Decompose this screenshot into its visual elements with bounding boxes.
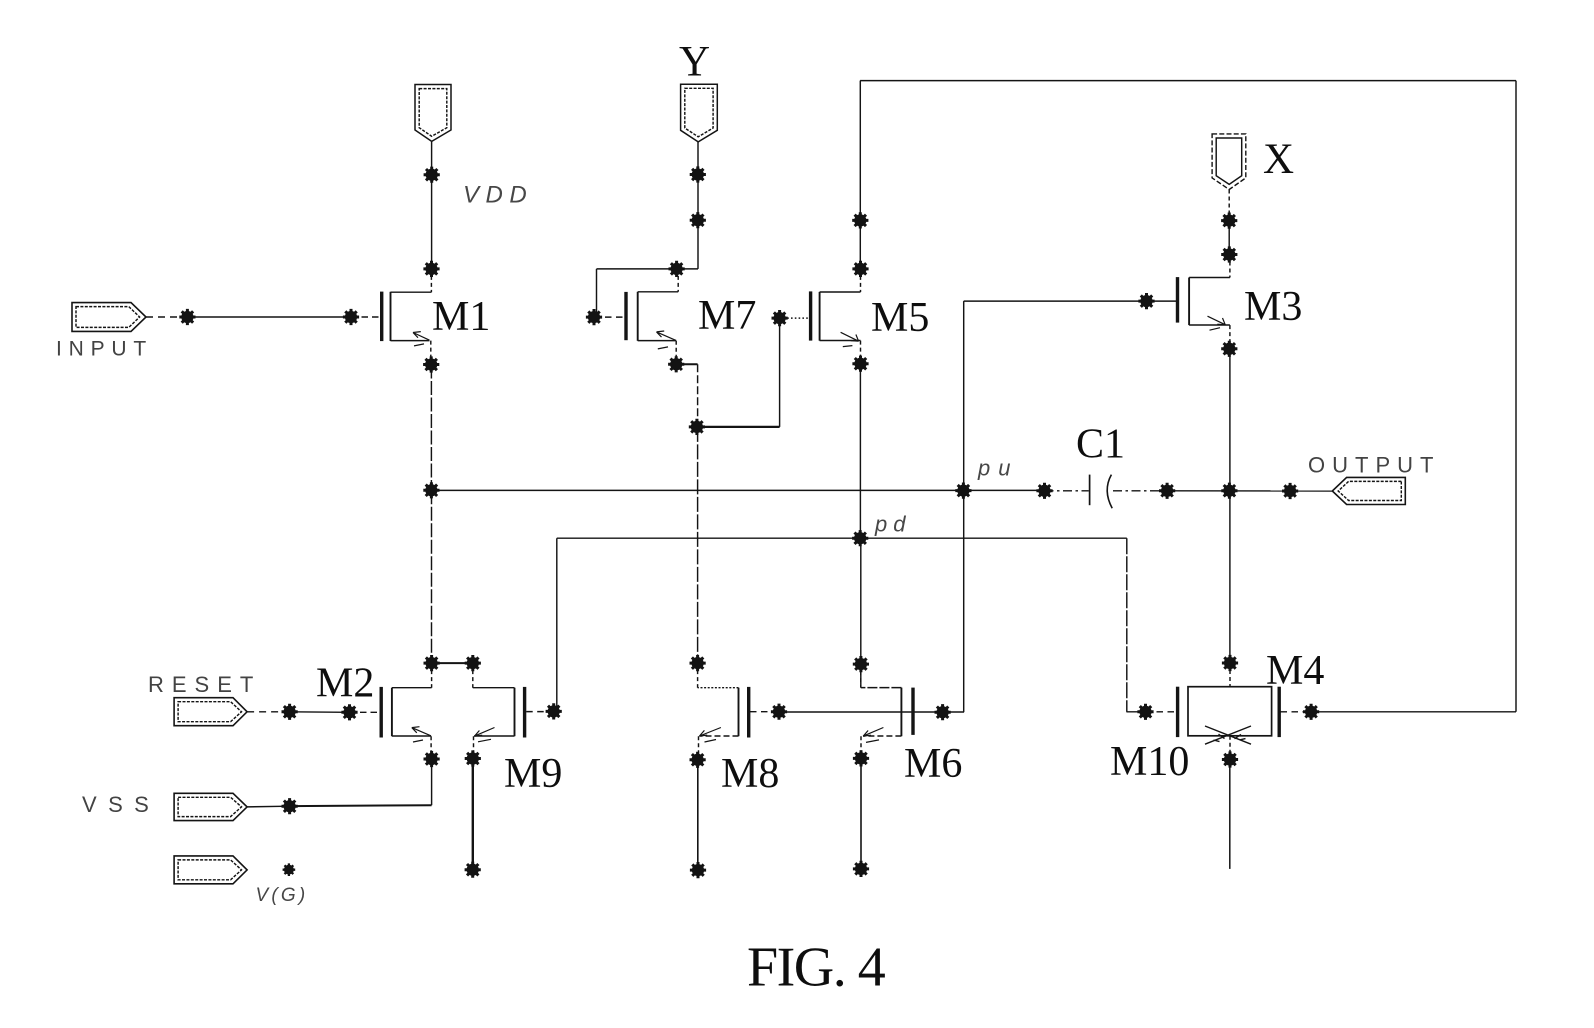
wire M3 source vertical to pu	[1229, 349, 1231, 491]
node M10 source dot	[1222, 751, 1238, 767]
svg-text:M6: M6	[904, 741, 962, 787]
node M1 drain dot	[423, 261, 439, 277]
wire RESET to M2 gate	[290, 711, 350, 714]
wire M9 drain riser	[472, 663, 474, 688]
node pu M3 drain dot	[1221, 483, 1237, 499]
wire M7 gate stub	[594, 316, 625, 318]
node M3 source dot	[1221, 341, 1237, 357]
wire Y horizontal to M7 gate branch	[597, 268, 699, 270]
wire capacitor to dot dashdot	[1113, 490, 1167, 492]
wire VDD stem	[431, 141, 433, 269]
node M8 drain dot	[690, 655, 706, 671]
port VDD	[415, 85, 451, 142]
wire pd right vertical to M10 gate	[1126, 538, 1128, 712]
wire VSS to dot	[247, 805, 290, 808]
node RESET dot 1	[282, 704, 298, 720]
node M9 drain dot	[465, 655, 481, 671]
svg-text:M4: M4	[1266, 648, 1324, 694]
svg-text:RESET: RESET	[148, 672, 261, 697]
node M6 gate dot	[935, 704, 951, 720]
wire pd left vertical to M9 gate	[556, 538, 558, 712]
node M8 bottom dot	[690, 862, 706, 878]
node pu cap left dot	[1036, 483, 1052, 499]
node RESET dot 2	[341, 704, 357, 720]
transistor M1	[382, 292, 432, 346]
wire pu to OUTPUT	[1167, 490, 1332, 492]
transistor M3	[1178, 277, 1230, 330]
wire M3 drain riser	[1229, 255, 1231, 278]
node x697 junction dot	[689, 419, 705, 435]
node M5 drain dot	[852, 261, 868, 277]
wire M1 drain riser	[430, 269, 432, 292]
wire M8 gate stub	[750, 711, 779, 713]
svg-text:OUTPUT: OUTPUT	[1308, 453, 1440, 478]
wire loop bottom to M4 gate dot	[1311, 711, 1516, 713]
svg-text:Y: Y	[679, 39, 710, 86]
node VSS dot	[282, 798, 298, 814]
wire M6 drain riser	[860, 664, 862, 688]
node M10 gate dot	[1137, 704, 1153, 720]
wire Y stem	[697, 142, 699, 269]
svg-text:M10: M10	[1110, 739, 1189, 785]
transistor M2	[381, 687, 431, 742]
wire INPUT to M1 gate	[187, 316, 351, 318]
wire M8 source vertical	[697, 760, 699, 870]
wire horizontal to M5 gate riser	[697, 426, 780, 428]
wire loop top edge	[860, 80, 1516, 82]
node M4 drain dot	[1222, 655, 1238, 671]
wire M5 gate riser	[779, 318, 781, 427]
transistor M6	[861, 688, 913, 743]
node M6 source dot	[853, 750, 869, 766]
svg-text:X: X	[1263, 136, 1294, 183]
svg-text:V(G): V(G)	[256, 885, 309, 906]
port Y	[681, 84, 718, 142]
wire M3 gate line	[964, 300, 1177, 302]
transistor M8	[698, 687, 749, 742]
node M5 source dot	[852, 356, 868, 372]
node M6 drain dot	[853, 656, 869, 672]
wire M7 drain riser	[677, 269, 679, 292]
wire M3 source riser	[1229, 325, 1231, 349]
wire M1 gate stub	[351, 316, 380, 318]
wire M5 source riser	[860, 341, 862, 364]
wire M1 vertical pu to M2	[431, 490, 433, 663]
node M4 gate dot	[1303, 704, 1319, 720]
svg-text:VDD: VDD	[463, 182, 533, 209]
node M8 source dot	[690, 752, 706, 768]
wire M10 gate stub	[1146, 711, 1177, 713]
wire M10 source vertical	[1229, 761, 1231, 869]
node INPUT dot 1	[179, 309, 195, 325]
wire pu dashdot to capacitor	[1045, 490, 1089, 492]
node M2 drain dot	[424, 655, 440, 671]
wire M5 drain riser	[860, 269, 862, 292]
wire M10 gate jog	[1126, 711, 1145, 713]
wire M8 drain riser	[697, 663, 699, 688]
svg-text:INPUT: INPUT	[56, 338, 153, 361]
svg-text:C1: C1	[1076, 422, 1125, 468]
svg-text:M9: M9	[504, 751, 562, 797]
wire M5 drain stem up to loop	[859, 81, 861, 269]
node X dot 1	[1221, 213, 1237, 229]
transistor M10 M4 pair	[1178, 687, 1280, 745]
node M2 source dot	[424, 751, 440, 767]
wire M7 source riser	[675, 341, 677, 365]
wire M1 drain vertical to pu	[430, 365, 432, 491]
svg-text:pd: pd	[874, 512, 911, 537]
svg-text:FIG. 4: FIG. 4	[747, 937, 886, 999]
node pd dot	[852, 530, 868, 546]
wire M3 gate vertical x963	[963, 301, 965, 712]
transistor M7	[626, 292, 678, 349]
node OUTPUT dot	[1282, 483, 1298, 499]
wire M9 source riser	[473, 736, 475, 758]
wire M5 vertical pd to M6	[860, 538, 862, 687]
svg-text:M7: M7	[698, 293, 756, 339]
port X	[1212, 134, 1246, 190]
node M6 bottom dot	[853, 861, 869, 877]
wire loop right edge	[1515, 81, 1517, 712]
node M1 source dot	[423, 356, 439, 372]
wire vertical x697 down to node	[697, 364, 699, 427]
node M9 gate dot	[546, 703, 562, 719]
svg-text:M1: M1	[432, 294, 490, 340]
wire M3 vertical pu to M4	[1229, 491, 1231, 663]
svg-text:pu: pu	[977, 456, 1018, 481]
node M9 source dot	[465, 750, 481, 766]
wire M5 source vertical to pd	[859, 364, 861, 539]
node Y dot 2	[690, 212, 706, 228]
wire M10 source riser	[1229, 736, 1231, 760]
wire RESET dashed segment	[247, 711, 290, 713]
wire M7 source jog right	[676, 363, 697, 365]
wire X stem middle	[1228, 221, 1230, 255]
wire INPUT dashed segment	[146, 316, 187, 318]
node pu left dot	[423, 482, 439, 498]
wire M7 gate drop	[596, 269, 598, 317]
wire X stem dashed upper	[1228, 190, 1230, 221]
wire gate bus y712	[779, 711, 964, 713]
node pu M3gate cross dot	[955, 483, 971, 499]
node X dot 2	[1221, 246, 1237, 262]
svg-text:M8: M8	[721, 751, 779, 797]
wire M5 gate stub	[780, 317, 811, 319]
node M8 gate dot	[771, 704, 787, 720]
capacitor C1	[1090, 475, 1113, 509]
wire M2 source vertical	[431, 759, 433, 805]
wire M8 source riser	[698, 736, 700, 760]
svg-text:M5: M5	[871, 295, 929, 341]
svg-text:VSS: VSS	[82, 792, 160, 817]
wire pd horizontal	[557, 537, 1127, 539]
svg-text:M3: M3	[1244, 284, 1302, 330]
port INPUT	[72, 303, 146, 332]
wire vertical x697 to M8	[697, 427, 699, 663]
node M7 drain junction dot	[669, 261, 685, 277]
wire M6 source vertical	[860, 758, 862, 869]
node M9 bottom dot	[465, 862, 481, 878]
port VSS	[174, 793, 247, 820]
wire M4 drain riser	[1229, 663, 1231, 687]
node VDD stem dot	[424, 167, 440, 183]
transistor M5	[811, 291, 861, 346]
wire M9 source vertical	[472, 759, 474, 870]
port OUTPUT	[1332, 477, 1405, 504]
wire M1 source riser	[430, 341, 432, 365]
wire M2 source riser	[430, 736, 432, 759]
node M3 gate line dot	[1138, 293, 1154, 309]
node M7 gate dot	[586, 309, 602, 325]
port RESET	[174, 698, 247, 726]
node Y dot 1	[690, 166, 706, 182]
transistor M9	[473, 687, 525, 742]
wire link M2-M9 drains	[432, 662, 473, 664]
node INPUT dot 2	[343, 309, 359, 325]
node VG dot	[283, 863, 296, 876]
wire M9 gate stub	[526, 711, 554, 713]
node pu cap right dot	[1159, 483, 1175, 499]
node loop left dot	[852, 212, 868, 228]
node M7 source dot	[668, 356, 684, 372]
port VG	[174, 856, 247, 884]
wire M2 drain riser	[431, 663, 433, 688]
node M5 gate dot	[772, 310, 788, 326]
svg-text:M2: M2	[316, 661, 374, 707]
wire M2 gate stub	[350, 711, 380, 713]
wire pu horizontal main	[431, 489, 1044, 491]
wire M6 source riser	[860, 736, 862, 758]
wire M4 right gate stub	[1281, 711, 1312, 713]
wire VSS to M2 source	[290, 804, 432, 807]
